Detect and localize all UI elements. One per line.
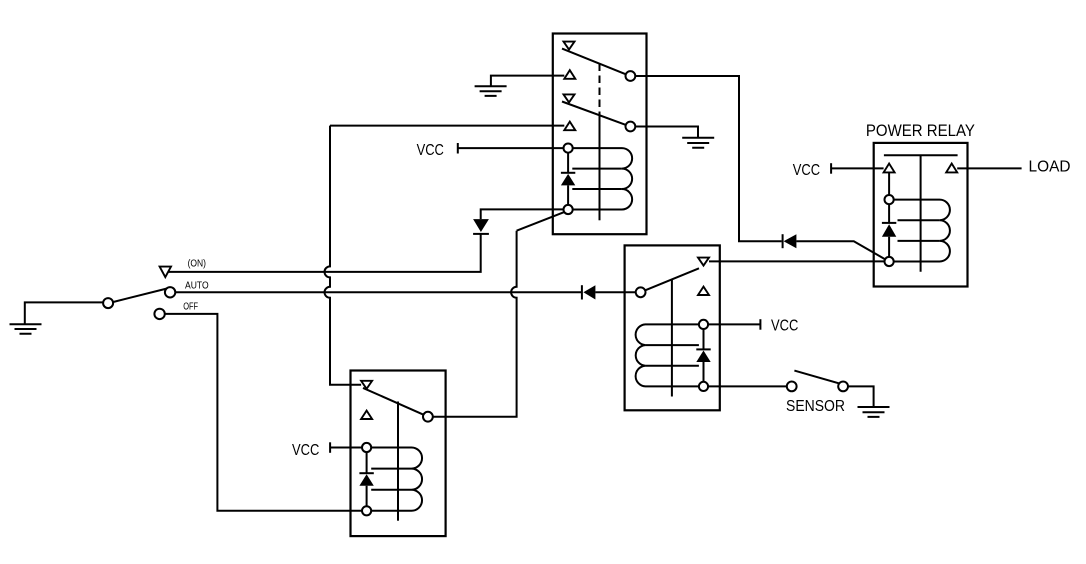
wire K2 coil minus to sensor switch [708, 385, 787, 387]
K2 arm [645, 268, 699, 290]
K2 coil winding [636, 324, 699, 386]
K2 coil plus terminal [699, 320, 708, 329]
K1 coil taps [572, 169, 622, 189]
K3 arm [363, 388, 423, 415]
power relay contact (LOAD side) [946, 164, 957, 173]
K3 coil winding [371, 448, 422, 511]
sensor switch pole [787, 382, 797, 392]
power relay coil plus terminal [885, 195, 894, 204]
K1 mechanical linkage (dashed) [599, 64, 601, 115]
K1 pole1 NC contact [564, 42, 575, 50]
K1 pole2 NO contact [564, 122, 575, 131]
K2 NO contact [698, 287, 709, 295]
wire K1 pole2 common to ground [635, 127, 698, 138]
selector pole (common contact) [103, 298, 113, 308]
power relay coil taps [898, 220, 940, 241]
wire vertical net (K1 coil minus to K3 common, hop over AUTO) [433, 231, 517, 417]
K1 pole1 NO contact [564, 70, 575, 79]
wire D3 to power relay coil minus [796, 241, 885, 259]
relay K1 box [553, 34, 647, 235]
ground (selector) [10, 302, 103, 333]
K3 coil taps [371, 469, 411, 490]
sensor switch throw [838, 382, 848, 392]
contact AUTO [165, 287, 175, 297]
diode D1 (ON line to K1 coil minus) [473, 209, 563, 234]
diode D3 (to power relay coil) [783, 234, 797, 248]
svg-text:POWER RELAY: POWER RELAY [866, 121, 975, 140]
VCC terminal (power contact) [830, 163, 832, 174]
wire K1 pole1 common to diode D3 [635, 76, 781, 241]
svg-text:AUTO: AUTO [185, 280, 209, 292]
wire K1 pole2 NO [330, 125, 564, 127]
K1 pole1 arm [562, 49, 626, 75]
VCC terminal (K1 coil) [457, 143, 459, 154]
K3 NO contact [361, 411, 372, 419]
wire OFF line down to relay K3 coil minus [165, 314, 362, 511]
VCC terminal (K2 coil) [759, 319, 761, 330]
K3 armature core line [397, 402, 399, 521]
svg-text:VCC: VCC [771, 317, 798, 334]
svg-text:SENSOR: SENSOR [786, 398, 845, 415]
K3 coil minus terminal [362, 506, 371, 515]
wire K1 pole1 NO to ground [491, 76, 564, 86]
K1 pole2 common terminal [626, 122, 636, 132]
contact (ON) [160, 267, 171, 278]
K2 armature core line [671, 280, 673, 397]
wire VCC to K1 coil plus [458, 147, 564, 149]
K1 coil winding [573, 148, 632, 209]
wire K2 NC to power relay coil minus [709, 260, 885, 262]
wire K2 coil plus to VCC [708, 323, 760, 325]
power relay core line [920, 155, 922, 271]
K1 pole1 common terminal [626, 71, 636, 81]
wire sensor to ground [848, 386, 874, 406]
wire VCC to K3 coil plus [330, 447, 362, 449]
wire contact stub to coil plus [888, 172, 890, 195]
svg-text:VCC: VCC [417, 142, 444, 159]
wire power contact to LOAD [957, 167, 1021, 169]
power relay contact bar [884, 154, 958, 156]
sensor switch arm [794, 371, 838, 384]
wire vertical net from K1 pole2 NO down to K3 NC (with hops) [325, 126, 362, 385]
relay K2 box [625, 245, 720, 410]
wire K1 coil minus diagonal to vertical net [517, 212, 564, 231]
wire VCC to power contact [831, 167, 884, 169]
power relay contact (VCC side) [884, 164, 895, 173]
svg-text:(ON): (ON) [188, 258, 206, 270]
K2 coil flyback diode [696, 329, 710, 382]
wire D2 to K2 common [595, 291, 635, 293]
ground (K1 pole2 common) [682, 138, 714, 148]
K1 pole2 arm [562, 102, 626, 125]
svg-text:LOAD: LOAD [1029, 159, 1071, 176]
power relay box [874, 143, 968, 287]
power relay coil flyback diode [882, 204, 896, 257]
K3 coil plus terminal [362, 443, 371, 452]
K2 NC contact [698, 258, 709, 266]
K2 coil minus terminal [699, 382, 708, 391]
K3 common terminal [423, 412, 433, 422]
ground (K1 pole1 NO) [475, 86, 507, 96]
K1 coil plus terminal [564, 144, 573, 153]
ground (sensor) [858, 407, 890, 417]
selector arm [113, 289, 166, 302]
K3 NC contact [361, 381, 372, 389]
K2 common terminal [636, 287, 646, 297]
wire (ON) line to diode D1 riser [168, 234, 481, 272]
K1 coil flyback diode [561, 153, 575, 205]
power relay coil winding [894, 200, 950, 262]
relay K3 box [351, 371, 446, 537]
K1 armature core line [599, 115, 601, 221]
K1 pole2 NC contact [564, 94, 575, 102]
wire AUTO line to diode D2 [175, 291, 582, 293]
K1 coil minus terminal [564, 205, 573, 214]
K3 coil flyback diode [359, 452, 373, 506]
diode D2 (AUTO line to K2 common) [582, 285, 596, 299]
svg-text:VCC: VCC [793, 162, 820, 179]
svg-text:OFF: OFF [183, 301, 198, 313]
power relay coil minus terminal [885, 257, 894, 266]
K2 coil taps [645, 345, 699, 366]
contact OFF [154, 309, 164, 319]
svg-text:VCC: VCC [292, 442, 319, 459]
VCC terminal (K3 coil) [329, 442, 331, 453]
